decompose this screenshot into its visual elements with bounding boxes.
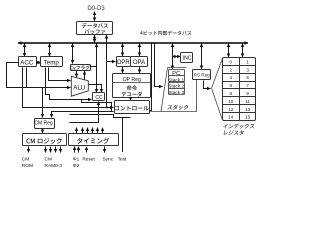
svg-text:ALU: ALU	[73, 85, 85, 92]
wire timing stub 3	[87, 128, 89, 134]
svg-text:9: 9	[246, 91, 249, 96]
svg-text:3: 3	[246, 67, 249, 72]
svg-text:OPA: OPA	[133, 60, 145, 66]
program counter PC cell	[169, 70, 185, 76]
wire bus to index registers (bidirectional) 1	[228, 44, 230, 58]
svg-text:11: 11	[245, 99, 250, 104]
wire timing stub 5	[97, 128, 99, 134]
wire D0-D3 to data bus buffer (bidirectional)	[94, 12, 96, 22]
svg-text:1: 1	[246, 60, 249, 65]
wire ACC bottom join	[26, 68, 28, 88]
svg-text:CM: CM	[22, 156, 29, 162]
wire ACC to Temp (bidirectional)	[36, 62, 40, 64]
svg-text:8: 8	[230, 91, 233, 96]
wire bus to index registers (bidirectional) 2	[242, 44, 244, 58]
wire CC zig to control bottom	[82, 100, 114, 112]
node stack label	[167, 105, 189, 110]
svg-text:Temp: Temp	[44, 60, 60, 67]
svg-text:Φ1: Φ1	[73, 156, 80, 162]
wire bus to PC (bidirectional)	[172, 44, 174, 70]
stack outer outline	[168, 67, 187, 69]
svg-text:Reset: Reset	[82, 156, 95, 162]
ALU	[71, 76, 88, 96]
svg-text:12: 12	[228, 107, 234, 112]
wire Cy flag to CC line	[90, 66, 97, 68]
svg-text:5: 5	[246, 75, 249, 80]
wire CM ROM output	[28, 147, 30, 153]
svg-text:ROM: ROM	[22, 163, 33, 169]
internal data bus (4-bit)	[18, 42, 248, 44]
svg-text:2: 2	[230, 67, 233, 72]
svg-text:13: 13	[245, 107, 251, 112]
register ACC	[19, 57, 37, 67]
wire timing stub 4	[92, 128, 94, 134]
wire Test input	[122, 117, 124, 152]
stack level 2 cell	[169, 83, 185, 89]
wire decoder to control	[130, 98, 132, 101]
svg-text:CC: CC	[95, 95, 103, 101]
wire control bottom step link	[70, 115, 131, 118]
wire buffer to internal bus (bidirectional)	[94, 35, 96, 43]
wire Cy flag to ALU	[76, 71, 78, 77]
svg-text:D0-D3: D0-D3	[87, 6, 105, 12]
wire ALU output to CC	[89, 85, 102, 93]
svg-text:OP Reg: OP Reg	[123, 77, 141, 83]
wire ALU to Cy flag	[84, 71, 86, 80]
wire bus to OPR (bidirectional)	[122, 44, 124, 57]
svg-text:14: 14	[228, 115, 234, 120]
svg-text:Φ2: Φ2	[73, 163, 80, 169]
OP Reg and instruction decoder box	[113, 74, 151, 98]
svg-text:CM: CM	[45, 156, 52, 162]
svg-text:ACC: ACC	[20, 60, 34, 67]
wire CM Reg to CM logic	[42, 128, 44, 133]
wire phi2 clock input	[78, 147, 80, 153]
svg-text:7: 7	[246, 83, 249, 88]
wire bus to OPA (bidirectional)	[139, 44, 141, 57]
index select fan upper	[212, 58, 223, 88]
wire bus to ACC (bidirectional)	[24, 44, 26, 57]
wire bus to RS Reg (bidirectional)	[201, 44, 203, 70]
wire Temp to ALU input 1	[49, 68, 71, 81]
instruction register OPR	[117, 57, 131, 67]
wire bus to CC (bidirectional)	[96, 44, 98, 93]
wire CM RAM output 2	[50, 147, 52, 153]
svg-text:6: 6	[230, 83, 233, 88]
svg-text:Sync: Sync	[102, 156, 113, 162]
wire OPR to OP Reg	[122, 67, 124, 74]
decimal correction CC	[93, 93, 105, 101]
wire ACC loop to ALU input 2	[7, 63, 71, 88]
wire CM RAM output 3	[55, 147, 57, 153]
control unit	[115, 101, 150, 114]
wire CM RAM output 1	[45, 147, 47, 153]
wire timing stub 2	[82, 128, 84, 134]
svg-text:CM Reg: CM Reg	[34, 121, 53, 127]
wire timing stub 1	[76, 128, 78, 134]
wire RS Reg to index register select	[204, 81, 211, 89]
wire phi1 clock input	[74, 147, 76, 153]
wire bus down right of control	[150, 44, 152, 111]
index select fan lower	[212, 88, 223, 120]
row select register RS Reg	[193, 70, 211, 80]
wire OPA to OP Reg	[139, 67, 141, 74]
wire timing stub 6	[102, 128, 104, 134]
wire lower trunk	[69, 122, 99, 124]
wire Sync output	[104, 147, 106, 153]
wire CC bottom to lower trunk	[98, 102, 100, 123]
wire buffer to OPR instruction register	[107, 35, 116, 107]
svg-text:4: 4	[230, 75, 233, 80]
CM logic box	[23, 134, 67, 146]
svg-text:RS Reg: RS Reg	[194, 72, 211, 77]
wire PC to incrementer (bidirectional)	[172, 56, 181, 58]
wire control to CM Reg	[52, 112, 112, 118]
wire Reset input	[86, 147, 88, 153]
timing box	[69, 134, 119, 146]
carry flag register Cyフラグ	[71, 65, 91, 71]
wire CM RAM output 4	[60, 147, 62, 153]
svg-text:0: 0	[230, 60, 233, 65]
wire bus down to stack	[155, 44, 163, 87]
svg-text:INC: INC	[183, 55, 192, 61]
node index register label	[223, 124, 255, 129]
index register array 0-15	[223, 58, 256, 121]
wire ACC to trunk A	[22, 68, 24, 108]
stack level 1 cell	[169, 76, 185, 82]
incrementer INC	[181, 53, 193, 63]
svg-text:Stack 3: Stack 3	[168, 90, 184, 96]
wire Temp to CC	[46, 68, 92, 100]
stack level 3 cell	[169, 89, 185, 95]
register CM Reg	[35, 119, 55, 129]
wire bus to carry flag	[72, 44, 74, 64]
instruction register OPA	[131, 57, 148, 67]
wire bus to Temp (bidirectional)	[49, 44, 51, 57]
svg-text:10: 10	[228, 99, 234, 104]
svg-text:Test: Test	[118, 156, 127, 162]
svg-text:RAM0-3: RAM0-3	[45, 163, 63, 169]
register Temp	[41, 57, 63, 67]
data bus buffer box	[77, 22, 113, 35]
node 4-bit internal data bus label	[140, 31, 191, 36]
svg-text:OPR: OPR	[117, 60, 131, 66]
wire trunk A to control	[22, 106, 113, 108]
wire branch into CM Reg	[42, 88, 44, 118]
svg-text:15: 15	[245, 115, 251, 120]
